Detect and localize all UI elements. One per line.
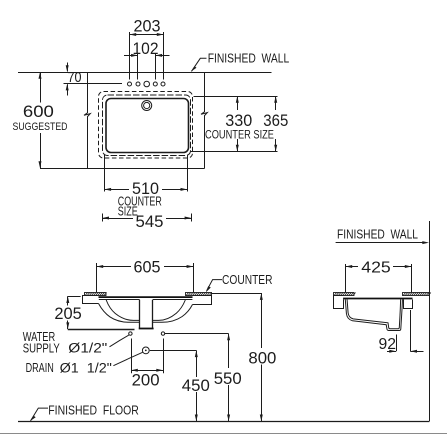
water supply circle right [161,332,164,335]
dim 200 extension lines [131,339,133,374]
dim 102 extension lines [137,54,139,80]
faucet hole 2 [136,82,140,86]
svg-text:102: 102 [133,39,159,58]
dim 600 line [40,72,42,103]
dim 205 top tick [68,296,81,298]
svg-text:FINISHED WALL: FINISHED WALL [337,228,418,242]
svg-text:COUNTER SIZE: COUNTER SIZE [205,130,274,142]
bowl outer curve right (front) [153,305,193,323]
svg-text:205: 205 [54,304,81,323]
dim 365 line [275,96,277,110]
drain extension line [150,350,197,352]
wall line (plan) [18,72,272,74]
bowl section inner (side) [347,300,401,329]
svg-text:203: 203 [134,17,161,36]
svg-text:92: 92 [379,336,397,353]
dim 545 extension ticks [102,214,104,222]
dim 330 line [237,96,239,110]
right top extension line [194,96,278,98]
faucet row extension line [64,83,123,85]
counter left edge with break [84,72,90,169]
dim 425 extension lines [345,264,347,292]
drain circle plan outer [142,101,152,111]
rim flange right block (side) [404,300,413,309]
dashed sink rim rect (hidden under counter) [99,92,193,159]
bowl section outer (side) [345,300,402,331]
svg-text:600: 600 [23,102,54,121]
dim 510 line [104,189,129,191]
rim flange right block (front) [193,296,212,305]
rim flange left block (side) [334,296,344,309]
ground line below floor [0,433,447,435]
svg-text:SUGGESTED: SUGGESTED [13,121,68,133]
dim 200 line [131,370,163,372]
counter outline (plan) bottom edge [40,168,205,170]
floor line [18,421,429,423]
dim 510 extension lines [104,155,106,192]
svg-text:450: 450 [182,376,210,395]
counter hatch right (side) [403,293,431,296]
dim 550 line [228,334,230,368]
dim 102 right outside arrow [155,55,169,57]
basin rim dashed rect 2 [103,95,191,156]
svg-text:FINISHED FLOOR: FINISHED FLOOR [48,404,139,418]
faucet hole 4 [153,82,157,86]
svg-text:330: 330 [225,111,252,130]
dim 92 left extension [396,335,398,352]
counter hatch left (front) [85,293,107,296]
svg-text:Ø1/2": Ø1/2" [68,341,107,356]
right bottom extension line [190,151,278,153]
drain circle (front) [142,347,149,354]
rim flange left block (front) [83,296,99,304]
svg-text:SUPPLY: SUPPLY [23,342,61,356]
dim 450 line [196,350,198,377]
supply extension line [165,333,229,335]
faucet hole center [144,81,150,87]
dim 545 line [102,218,133,220]
dim 102 left outside arrow [124,55,138,57]
svg-text:545: 545 [136,212,164,231]
counter right edge with break [201,72,207,169]
dim 205 bottom line [68,329,135,331]
counter top extension line [211,293,262,295]
dim 70 upper arrow [67,63,69,72]
dim 205 line [67,296,69,305]
counter hatch left (side) [334,293,356,296]
dim 800 line [261,293,263,348]
water supply circle left [129,332,132,335]
svg-text:550: 550 [214,369,242,388]
bowl outer curve left (front) [99,304,140,323]
rim thick line (side) [343,298,412,300]
finished floor leader [31,408,48,421]
svg-text:605: 605 [134,258,161,277]
svg-text:425: 425 [361,260,391,277]
dim 92 arrows [387,351,396,353]
rim underside line [99,299,140,301]
svg-text:FINISHED WALL: FINISHED WALL [208,52,290,66]
basin solid rounded rect [106,99,189,153]
drain leader [113,352,142,365]
svg-text:200: 200 [132,371,160,390]
counter hatch right (front) [186,293,212,296]
drain circle plan inner [144,102,150,108]
svg-text:COUNTER: COUNTER [222,273,273,287]
dim 70 lower arrow [67,84,69,95]
svg-text:365: 365 [263,111,288,130]
bowl inner curve left (front) [106,300,139,320]
faucet hole 5 [161,82,165,86]
finished wall underline leader [336,242,423,244]
faucet hole 1 [128,82,132,86]
dim 203 line [130,34,164,36]
water supply leader [110,335,129,347]
wall line (side) [429,221,431,421]
counter label leader (front) [207,280,222,291]
bowl inner curve right (front) [153,300,186,320]
svg-text:Ø1 1/2": Ø1 1/2" [60,361,113,376]
finished wall label (plan) leader [192,58,207,71]
dim 605 extension lines [96,263,98,292]
dim 605 line [97,266,132,268]
svg-text:800: 800 [248,349,276,368]
svg-text:DRAIN: DRAIN [26,361,54,375]
dim 92 right extension [410,310,412,351]
dim 203 extension lines [129,32,131,80]
dim 425 line [346,266,359,268]
sink rim thick line (front) [99,296,193,298]
drain column (front) [139,300,141,328]
